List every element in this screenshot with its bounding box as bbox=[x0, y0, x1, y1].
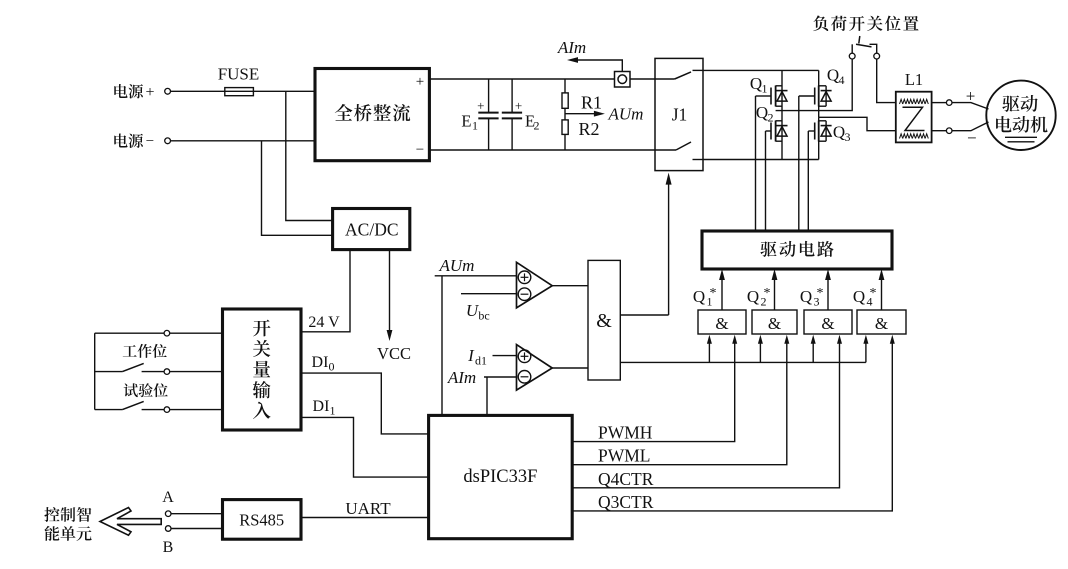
label 电源+ bbox=[114, 84, 143, 98]
svg-text:Q: Q bbox=[800, 287, 812, 306]
wire: DI0 bbox=[301, 373, 429, 434]
AND gate small 2 bbox=[752, 310, 797, 334]
MCU dsPIC33F bbox=[429, 415, 573, 538]
current sensor (hall) bbox=[615, 72, 631, 88]
svg-text:d1: d1 bbox=[475, 354, 487, 368]
comparator U1 bbox=[517, 262, 553, 308]
wire: DC bus positive bbox=[429, 78, 655, 80]
wire: AUm voltage tap arrow bbox=[565, 113, 598, 115]
svg-text:−: − bbox=[146, 134, 154, 150]
svg-text:&: & bbox=[768, 314, 781, 333]
load switch (负荷开关) bbox=[849, 53, 855, 59]
AND gate small 1 bbox=[698, 310, 746, 334]
wire: power minus input line bbox=[171, 140, 316, 142]
svg-text:RS485: RS485 bbox=[239, 511, 284, 530]
wire: A line bbox=[171, 513, 223, 515]
switch inside J1 top bbox=[655, 78, 675, 80]
switch input block 开关量输入 bbox=[223, 309, 302, 430]
wire: AUm input bbox=[435, 275, 517, 277]
wire: VCC output arrow bbox=[389, 250, 391, 333]
wire: Id1 input bbox=[493, 355, 517, 357]
svg-text:24 V: 24 V bbox=[308, 314, 340, 331]
svg-text:Q: Q bbox=[756, 103, 768, 122]
svg-text:AC/DC: AC/DC bbox=[345, 219, 398, 239]
svg-text:Q: Q bbox=[853, 287, 865, 306]
wire: Q3 gate run bbox=[807, 131, 809, 231]
svg-text:VCC: VCC bbox=[377, 344, 411, 363]
svg-text:bc: bc bbox=[478, 309, 489, 323]
label 试验位 bbox=[124, 383, 168, 397]
contactor J1 bbox=[655, 58, 703, 170]
svg-text:&: & bbox=[715, 314, 728, 333]
svg-text:1: 1 bbox=[330, 404, 336, 418]
wire: AND output to J1 bbox=[620, 314, 668, 316]
transistor Q4 bbox=[818, 70, 820, 117]
svg-text:+: + bbox=[145, 84, 154, 101]
wire: B line bbox=[171, 528, 223, 530]
svg-text:Q: Q bbox=[833, 123, 845, 142]
svg-text:Q: Q bbox=[750, 74, 762, 93]
AND gate small 4 bbox=[857, 310, 906, 334]
resistor R1 bbox=[564, 79, 566, 93]
svg-text:Q: Q bbox=[747, 287, 759, 306]
svg-text:E: E bbox=[461, 112, 471, 131]
svg-text:1: 1 bbox=[472, 119, 478, 133]
wire: Q3CTR to gate4 bbox=[572, 340, 892, 511]
wire: input row 1 bbox=[95, 332, 164, 334]
transistor Q3 bbox=[818, 117, 820, 159]
svg-text:&: & bbox=[821, 314, 834, 333]
AND gate main bbox=[588, 260, 620, 380]
wire: Q4 gate run bbox=[798, 96, 800, 231]
wire: Q4CTR to gate3 bbox=[572, 340, 839, 488]
svg-text:*: * bbox=[817, 286, 824, 301]
svg-text:2: 2 bbox=[534, 119, 540, 133]
wire: bridge output node B to L1 bbox=[819, 117, 896, 130]
svg-text:AUm: AUm bbox=[608, 105, 644, 124]
svg-text:0: 0 bbox=[329, 360, 335, 374]
label 电源- bbox=[114, 133, 143, 147]
svg-text:4: 4 bbox=[839, 73, 845, 87]
svg-text:Q: Q bbox=[693, 287, 705, 306]
svg-text:A: A bbox=[162, 489, 174, 506]
svg-text:UART: UART bbox=[345, 499, 391, 518]
wire: bridge output node A to load switch bbox=[776, 59, 853, 111]
wire: UART bbox=[301, 517, 429, 519]
wire: L1 to motor minus terminal bbox=[932, 130, 947, 132]
switch 工作位 bbox=[95, 371, 123, 373]
wire: AIm current tap arrow bbox=[574, 60, 622, 72]
svg-text:+: + bbox=[416, 74, 424, 90]
svg-text:AUm: AUm bbox=[439, 256, 475, 275]
svg-text:3: 3 bbox=[845, 130, 851, 144]
wire: Q2 gate run bbox=[765, 131, 767, 231]
svg-text:DI: DI bbox=[312, 354, 329, 371]
svg-text:Q: Q bbox=[827, 66, 839, 85]
svg-text:B: B bbox=[163, 539, 174, 556]
label 控制智能单元 bbox=[44, 507, 91, 522]
svg-text:−: − bbox=[416, 142, 424, 158]
wire: common rail of position switches bbox=[94, 333, 96, 409]
wire: load switch to L1 top bbox=[877, 59, 896, 103]
svg-text:FUSE: FUSE bbox=[218, 65, 260, 84]
wire: comparator U1 output bbox=[552, 285, 588, 287]
switch 试验位 bbox=[95, 409, 123, 411]
svg-text:AIm: AIm bbox=[447, 368, 476, 387]
wire: Q1 gate run bbox=[755, 96, 757, 231]
svg-text:*: * bbox=[710, 286, 717, 301]
wire: gate3 to driver bbox=[827, 275, 829, 310]
terminal: power minus bbox=[165, 138, 171, 144]
wire: PWML to gate2 bbox=[572, 340, 787, 465]
transistor Q2 bbox=[781, 111, 783, 160]
wire: J1 coil control from AND gate bbox=[668, 180, 670, 315]
wire: gate1 to driver bbox=[721, 275, 723, 310]
svg-text:R2: R2 bbox=[578, 119, 599, 139]
svg-text:&: & bbox=[596, 310, 612, 332]
svg-text:DI: DI bbox=[313, 398, 330, 415]
svg-text:J1: J1 bbox=[672, 105, 688, 125]
wire: 24V output bbox=[301, 250, 350, 332]
label 工作位 bbox=[123, 344, 167, 358]
svg-text:2: 2 bbox=[768, 111, 774, 125]
capacitor E1 bbox=[488, 79, 490, 113]
wire: AUm sense from dsPIC bbox=[441, 276, 443, 416]
hollow arrow to control unit bbox=[100, 508, 161, 536]
svg-text:PWMH: PWMH bbox=[598, 423, 653, 443]
wire: minus feed to AC/DC bbox=[262, 141, 333, 236]
wire: L1 to motor plus terminal bbox=[932, 102, 947, 104]
svg-text:−: − bbox=[967, 129, 977, 148]
wire: gate4 to driver bbox=[881, 275, 883, 310]
wire: comparator U2 output bbox=[552, 367, 588, 369]
AND gate small 3 bbox=[804, 310, 852, 334]
svg-text:+: + bbox=[966, 87, 976, 106]
resistor R2 bbox=[564, 108, 566, 120]
wire: AIm input bbox=[484, 376, 517, 378]
rectifier 全桥整流 bbox=[315, 69, 429, 161]
svg-text:dsPIC33F: dsPIC33F bbox=[463, 467, 537, 487]
terminal: power plus bbox=[165, 88, 171, 94]
transceiver RS485 bbox=[223, 500, 302, 540]
wire: AND enable line to small gates bbox=[620, 361, 866, 363]
switch inside J1 bottom bbox=[655, 149, 676, 151]
capacitor E2 bbox=[511, 79, 513, 113]
wire: plus feed to AC/DC bbox=[286, 91, 333, 220]
inductor L1 bbox=[896, 92, 932, 143]
svg-text:1: 1 bbox=[762, 82, 768, 96]
wire: PWMH to gate1 bbox=[572, 340, 735, 442]
svg-text:*: * bbox=[764, 286, 771, 301]
svg-text:PWML: PWML bbox=[598, 446, 651, 466]
driver block 驱动电路 bbox=[702, 231, 892, 269]
transistor Q1 bbox=[781, 70, 783, 110]
label 负荷开关位置 bbox=[813, 16, 918, 32]
svg-text:+: + bbox=[515, 98, 522, 113]
wire: bridge bottom rail bbox=[703, 159, 819, 161]
svg-text:&: & bbox=[875, 314, 888, 333]
svg-text:R1: R1 bbox=[581, 93, 602, 113]
wire: power plus input line bbox=[171, 90, 316, 92]
svg-text:AIm: AIm bbox=[557, 38, 586, 57]
svg-text:L1: L1 bbox=[905, 70, 923, 89]
svg-text:+: + bbox=[477, 98, 484, 113]
fuse FUSE bbox=[225, 88, 254, 96]
wire: DI1 bbox=[301, 417, 429, 477]
power module AC/DC bbox=[333, 209, 410, 250]
wire: AIm sense from dsPIC bbox=[486, 377, 488, 415]
svg-text:Q3CTR: Q3CTR bbox=[598, 492, 654, 512]
wire: bridge top rail bbox=[703, 69, 819, 71]
wire: Ubc input bbox=[461, 293, 517, 295]
wire: gate2 to driver bbox=[774, 275, 776, 310]
comparator U2 bbox=[517, 345, 553, 391]
wire: DC bus negative bbox=[429, 149, 655, 151]
svg-text:*: * bbox=[870, 286, 877, 301]
motor 驱动电动机 bbox=[986, 81, 1055, 150]
svg-text:Q4CTR: Q4CTR bbox=[598, 469, 654, 489]
